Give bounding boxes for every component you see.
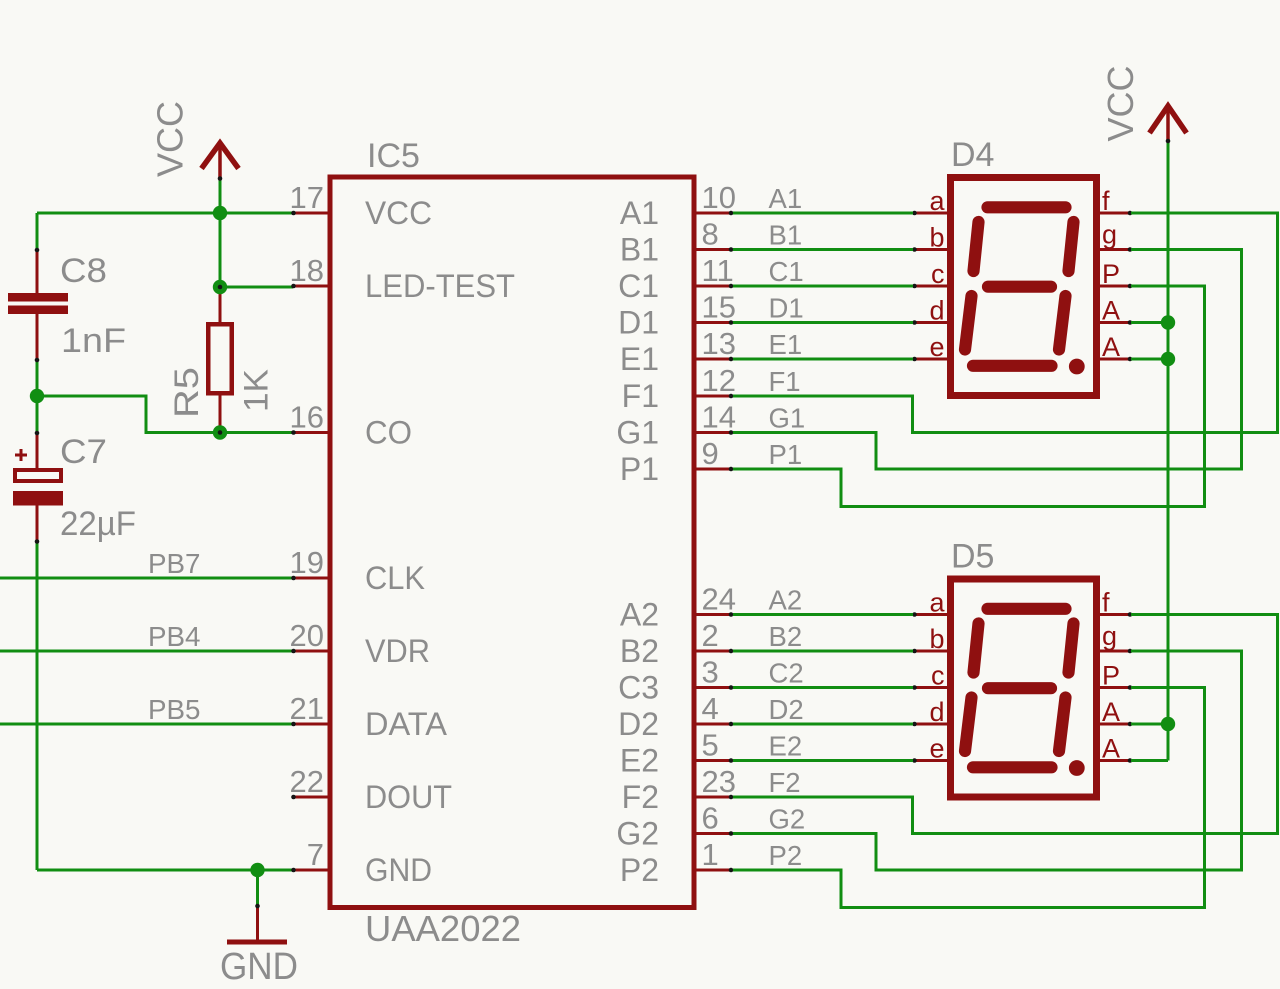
D4 pin A [1099, 296, 1132, 326]
pin dot VCC left stem [218, 176, 223, 181]
wire net G1 to D4 segment g [733, 250, 1242, 470]
svg-text:C1: C1 [769, 256, 804, 287]
D4 segment d (bottom) [973, 360, 1052, 372]
svg-text:D1: D1 [769, 293, 804, 324]
svg-text:G1: G1 [769, 403, 806, 434]
capacitor C7 (polarized) [13, 433, 136, 543]
svg-text:20: 20 [290, 618, 324, 653]
D4 segment b (upper-right) [1069, 222, 1074, 271]
wire B2 IC to D5 [733, 650, 913, 653]
wire node to CO row [37, 396, 293, 433]
D4 pin d [912, 296, 948, 326]
D5 pin A [1099, 697, 1132, 727]
svg-text:B1: B1 [620, 232, 659, 268]
IC5 right pin 6 G2 [616, 801, 733, 852]
svg-text:f: f [1102, 186, 1110, 216]
svg-text:R5: R5 [168, 367, 206, 418]
IC5 UAA2022 body [330, 137, 694, 949]
svg-text:a: a [929, 186, 945, 216]
svg-text:B1: B1 [769, 220, 803, 251]
svg-text:P1: P1 [769, 439, 803, 470]
svg-text:D4: D4 [951, 136, 994, 174]
svg-text:A1: A1 [620, 195, 659, 231]
D4 pin a [912, 186, 948, 216]
svg-text:G2: G2 [769, 804, 806, 835]
power symbol VCC (left) [150, 101, 239, 179]
svg-text:g: g [1102, 621, 1117, 651]
wire D2 IC to D5 [733, 723, 913, 726]
svg-text:E2: E2 [769, 731, 803, 762]
svg-text:1nF: 1nF [61, 322, 126, 360]
D5 pin b [912, 624, 948, 654]
svg-text:A: A [1102, 734, 1120, 764]
svg-text:LED-TEST: LED-TEST [365, 268, 515, 304]
svg-text:D2: D2 [769, 694, 804, 725]
junction VCC/pin17 [213, 206, 227, 220]
display D5 body [951, 538, 1097, 798]
svg-text:VCC: VCC [150, 101, 191, 177]
svg-text:19: 19 [290, 545, 324, 580]
svg-text:d: d [929, 296, 944, 326]
svg-text:PB7: PB7 [148, 548, 201, 579]
D5 segment d (bottom) [973, 761, 1052, 773]
svg-text:12: 12 [702, 363, 736, 398]
svg-text:C2: C2 [769, 658, 804, 689]
svg-text:a: a [929, 588, 945, 618]
svg-text:VCC: VCC [365, 195, 432, 231]
svg-text:D5: D5 [951, 538, 994, 576]
svg-text:g: g [1102, 220, 1117, 250]
D4 pin b [912, 223, 948, 253]
wire D1 IC to D4 [733, 321, 913, 324]
svg-text:8: 8 [702, 217, 719, 252]
svg-text:e: e [929, 332, 944, 362]
wire GND row [37, 870, 293, 906]
D5 segment f (upper-left) [974, 624, 979, 673]
svg-text:E2: E2 [620, 743, 659, 779]
D5 pin c [912, 661, 948, 691]
wire B1 IC to D4 [733, 248, 913, 251]
D5 pin e [912, 734, 948, 764]
svg-text:c: c [931, 661, 945, 691]
D4 segment a (top) [988, 201, 1066, 213]
svg-text:21: 21 [290, 691, 324, 726]
IC5 left pin 22 DOUT [290, 764, 452, 815]
svg-text:A: A [1102, 296, 1120, 326]
svg-text:VDR: VDR [365, 633, 430, 669]
IC5 left pin 20 VDR [290, 618, 430, 669]
svg-text:23: 23 [702, 764, 736, 799]
svg-text:C7: C7 [60, 433, 107, 471]
D5 segment b (upper-right) [1069, 624, 1074, 673]
D4 pin f [1099, 186, 1132, 216]
D5 pin a [912, 588, 948, 618]
wire VCC to R5 top / pin 18 [220, 213, 293, 287]
svg-text:16: 16 [290, 400, 324, 435]
wire C1 IC to D4 [733, 285, 913, 288]
svg-text:F2: F2 [769, 767, 801, 798]
wire C2 IC to D5 [733, 686, 913, 689]
pin dot C7 top [35, 431, 40, 436]
svg-text:P2: P2 [769, 840, 803, 871]
svg-text:GND: GND [365, 852, 432, 888]
D5 segment e (lower-left) [965, 698, 972, 752]
svg-text:CLK: CLK [365, 560, 425, 596]
D5 decimal point [1069, 760, 1085, 776]
IC5 right pin 13 E1 [620, 326, 736, 377]
junction anode A D4 (2) [1161, 352, 1175, 366]
svg-text:3: 3 [702, 655, 719, 690]
junction anode A D4 (1) [1161, 315, 1175, 329]
wire A1 IC to D4 [733, 212, 913, 215]
svg-text:6: 6 [702, 801, 719, 836]
IC5 left pin 19 CLK [290, 545, 425, 596]
wire net P1 to D4 point [733, 286, 1205, 507]
svg-text:D1: D1 [618, 305, 659, 341]
pin dot VCC right stem [1166, 139, 1171, 144]
wire net P2 to D5 point [733, 688, 1205, 908]
svg-text:P: P [1102, 661, 1120, 691]
IC5 left pin 21 DATA [290, 691, 448, 742]
junction R5 top pin 18 [213, 280, 227, 294]
IC5 right pin 15 D1 [618, 290, 736, 341]
svg-text:c: c [931, 259, 945, 289]
svg-text:15: 15 [702, 290, 736, 325]
IC5 left pin 16 CO [290, 400, 412, 451]
svg-text:A: A [1102, 332, 1120, 362]
svg-text:F1: F1 [622, 378, 659, 414]
IC5 right pin 4 D2 [618, 691, 733, 742]
svg-text:UAA2022: UAA2022 [365, 908, 521, 949]
pin dot C8 top [35, 248, 40, 253]
svg-text:4: 4 [702, 691, 719, 726]
D4 segment e (lower-left) [965, 296, 972, 350]
wire net F1 to D4 segment f [733, 213, 1278, 433]
svg-text:10: 10 [702, 180, 736, 215]
IC5 right pin 1 P2 [620, 837, 733, 888]
wire A2 IC to D5 [733, 613, 913, 616]
svg-text:PB5: PB5 [148, 694, 201, 725]
svg-text:IC5: IC5 [367, 137, 420, 175]
wire E1 IC to D4 [733, 358, 913, 361]
D4 decimal point [1069, 359, 1085, 375]
IC5 right pin 5 E2 [620, 728, 733, 779]
svg-text:CO: CO [365, 415, 412, 451]
svg-text:22µF: 22µF [60, 505, 136, 543]
IC5 left pin 18 LED-TEST [290, 253, 515, 304]
svg-text:13: 13 [702, 326, 736, 361]
ground symbol GND [220, 906, 298, 988]
D5 segment c (lower-right) [1059, 698, 1066, 752]
svg-text:P: P [1102, 259, 1120, 289]
svg-text:9: 9 [702, 436, 719, 471]
svg-text:11: 11 [702, 253, 734, 288]
wire PB4 [0, 650, 293, 653]
D4 pin P [1099, 259, 1132, 289]
svg-text:C3: C3 [618, 670, 659, 706]
svg-text:d: d [929, 697, 944, 727]
junction R5 bottom pin 16 [213, 425, 227, 439]
svg-text:A2: A2 [769, 585, 803, 616]
junction node C8/C7 [30, 389, 44, 403]
IC5 right pin 10 A1 [620, 180, 736, 231]
wire net G2 to D5 segment g [733, 651, 1242, 870]
D5 pin g [1099, 621, 1132, 653]
D4 pin c [912, 259, 948, 289]
junction anode A D5 [1161, 717, 1175, 731]
svg-text:B2: B2 [769, 621, 803, 652]
D5 segment g (middle) [988, 682, 1051, 694]
IC5 left pin 17 VCC [290, 180, 432, 231]
IC5 right pin 24 A2 [620, 582, 736, 633]
D5 pin d [912, 697, 948, 727]
display D4 body [951, 136, 1097, 396]
capacitor C8 [8, 250, 126, 360]
svg-text:A2: A2 [620, 597, 659, 633]
svg-text:e: e [929, 734, 944, 764]
IC5 right pin 2 B2 [620, 618, 733, 669]
wire net F2 to D5 segment f [733, 615, 1278, 834]
svg-text:E1: E1 [769, 329, 803, 360]
resistor R5 [168, 287, 276, 433]
wire E2 IC to D5 [733, 759, 913, 762]
svg-text:VCC: VCC [1100, 65, 1141, 141]
D4 segment f (upper-left) [974, 222, 979, 271]
D5 pin f [1099, 588, 1132, 618]
svg-text:P2: P2 [620, 852, 659, 888]
pin dot C8 bottom [35, 358, 40, 363]
D4 pin e [912, 332, 948, 362]
wire PB5 [0, 723, 293, 726]
svg-text:F1: F1 [769, 366, 801, 397]
IC5 right pin 23 F2 [622, 764, 736, 815]
D5 segment a (top) [988, 603, 1066, 615]
svg-text:GND: GND [220, 946, 298, 988]
svg-text:G1: G1 [616, 415, 659, 451]
svg-text:B2: B2 [620, 633, 659, 669]
svg-text:A1: A1 [769, 183, 803, 214]
svg-text:b: b [929, 624, 944, 654]
wire C7 to GND row [36, 542, 39, 871]
D4 segment c (lower-right) [1059, 296, 1066, 350]
wire VCC net top-left [37, 179, 293, 251]
pin dot R5 top [218, 285, 223, 290]
svg-text:5: 5 [702, 728, 719, 763]
svg-text:18: 18 [290, 253, 324, 288]
junction GND [250, 863, 264, 877]
svg-text:f: f [1102, 588, 1110, 618]
wire C8 to C7 node [36, 360, 39, 433]
svg-text:DATA: DATA [365, 706, 448, 742]
IC5 right pin 3 C3 [618, 655, 733, 706]
svg-text:14: 14 [702, 400, 736, 435]
IC5 right pin 14 G1 [616, 400, 736, 451]
D4 pin g [1099, 220, 1132, 252]
svg-text:E1: E1 [620, 341, 659, 377]
D4 pin A [1099, 332, 1132, 362]
IC5 right pin 9 P1 [620, 436, 733, 487]
svg-text:A: A [1102, 697, 1120, 727]
IC5 left pin 7 GND [291, 837, 432, 888]
D5 pin A [1099, 734, 1132, 764]
svg-text:DOUT: DOUT [365, 779, 452, 815]
IC5 right pin 12 F1 [622, 363, 736, 414]
svg-text:22: 22 [290, 764, 324, 799]
power symbol VCC (right) [1100, 65, 1187, 141]
svg-text:2: 2 [702, 618, 719, 653]
svg-text:1: 1 [702, 837, 719, 872]
svg-text:PB4: PB4 [148, 621, 201, 652]
IC5 right pin 11 C1 [618, 253, 734, 304]
svg-text:P1: P1 [620, 451, 659, 487]
svg-text:24: 24 [702, 582, 736, 617]
wire PB7 [0, 577, 293, 580]
D5 pin P [1099, 661, 1132, 691]
svg-text:C1: C1 [618, 268, 659, 304]
pin dot R5 bottom [218, 430, 223, 435]
pin dot C7 bottom [35, 539, 40, 544]
svg-text:1K: 1K [238, 369, 276, 412]
pin dot GND symbol [255, 904, 260, 909]
svg-text:17: 17 [290, 180, 324, 215]
svg-text:7: 7 [307, 837, 324, 872]
svg-text:D2: D2 [618, 706, 659, 742]
svg-text:F2: F2 [622, 779, 659, 815]
IC5 right pin 8 B1 [620, 217, 733, 268]
svg-text:G2: G2 [616, 816, 659, 852]
wire VCC anode rail [1131, 141, 1168, 761]
svg-text:C8: C8 [60, 252, 107, 290]
D4 segment g (middle) [988, 281, 1051, 293]
svg-text:b: b [929, 223, 944, 253]
